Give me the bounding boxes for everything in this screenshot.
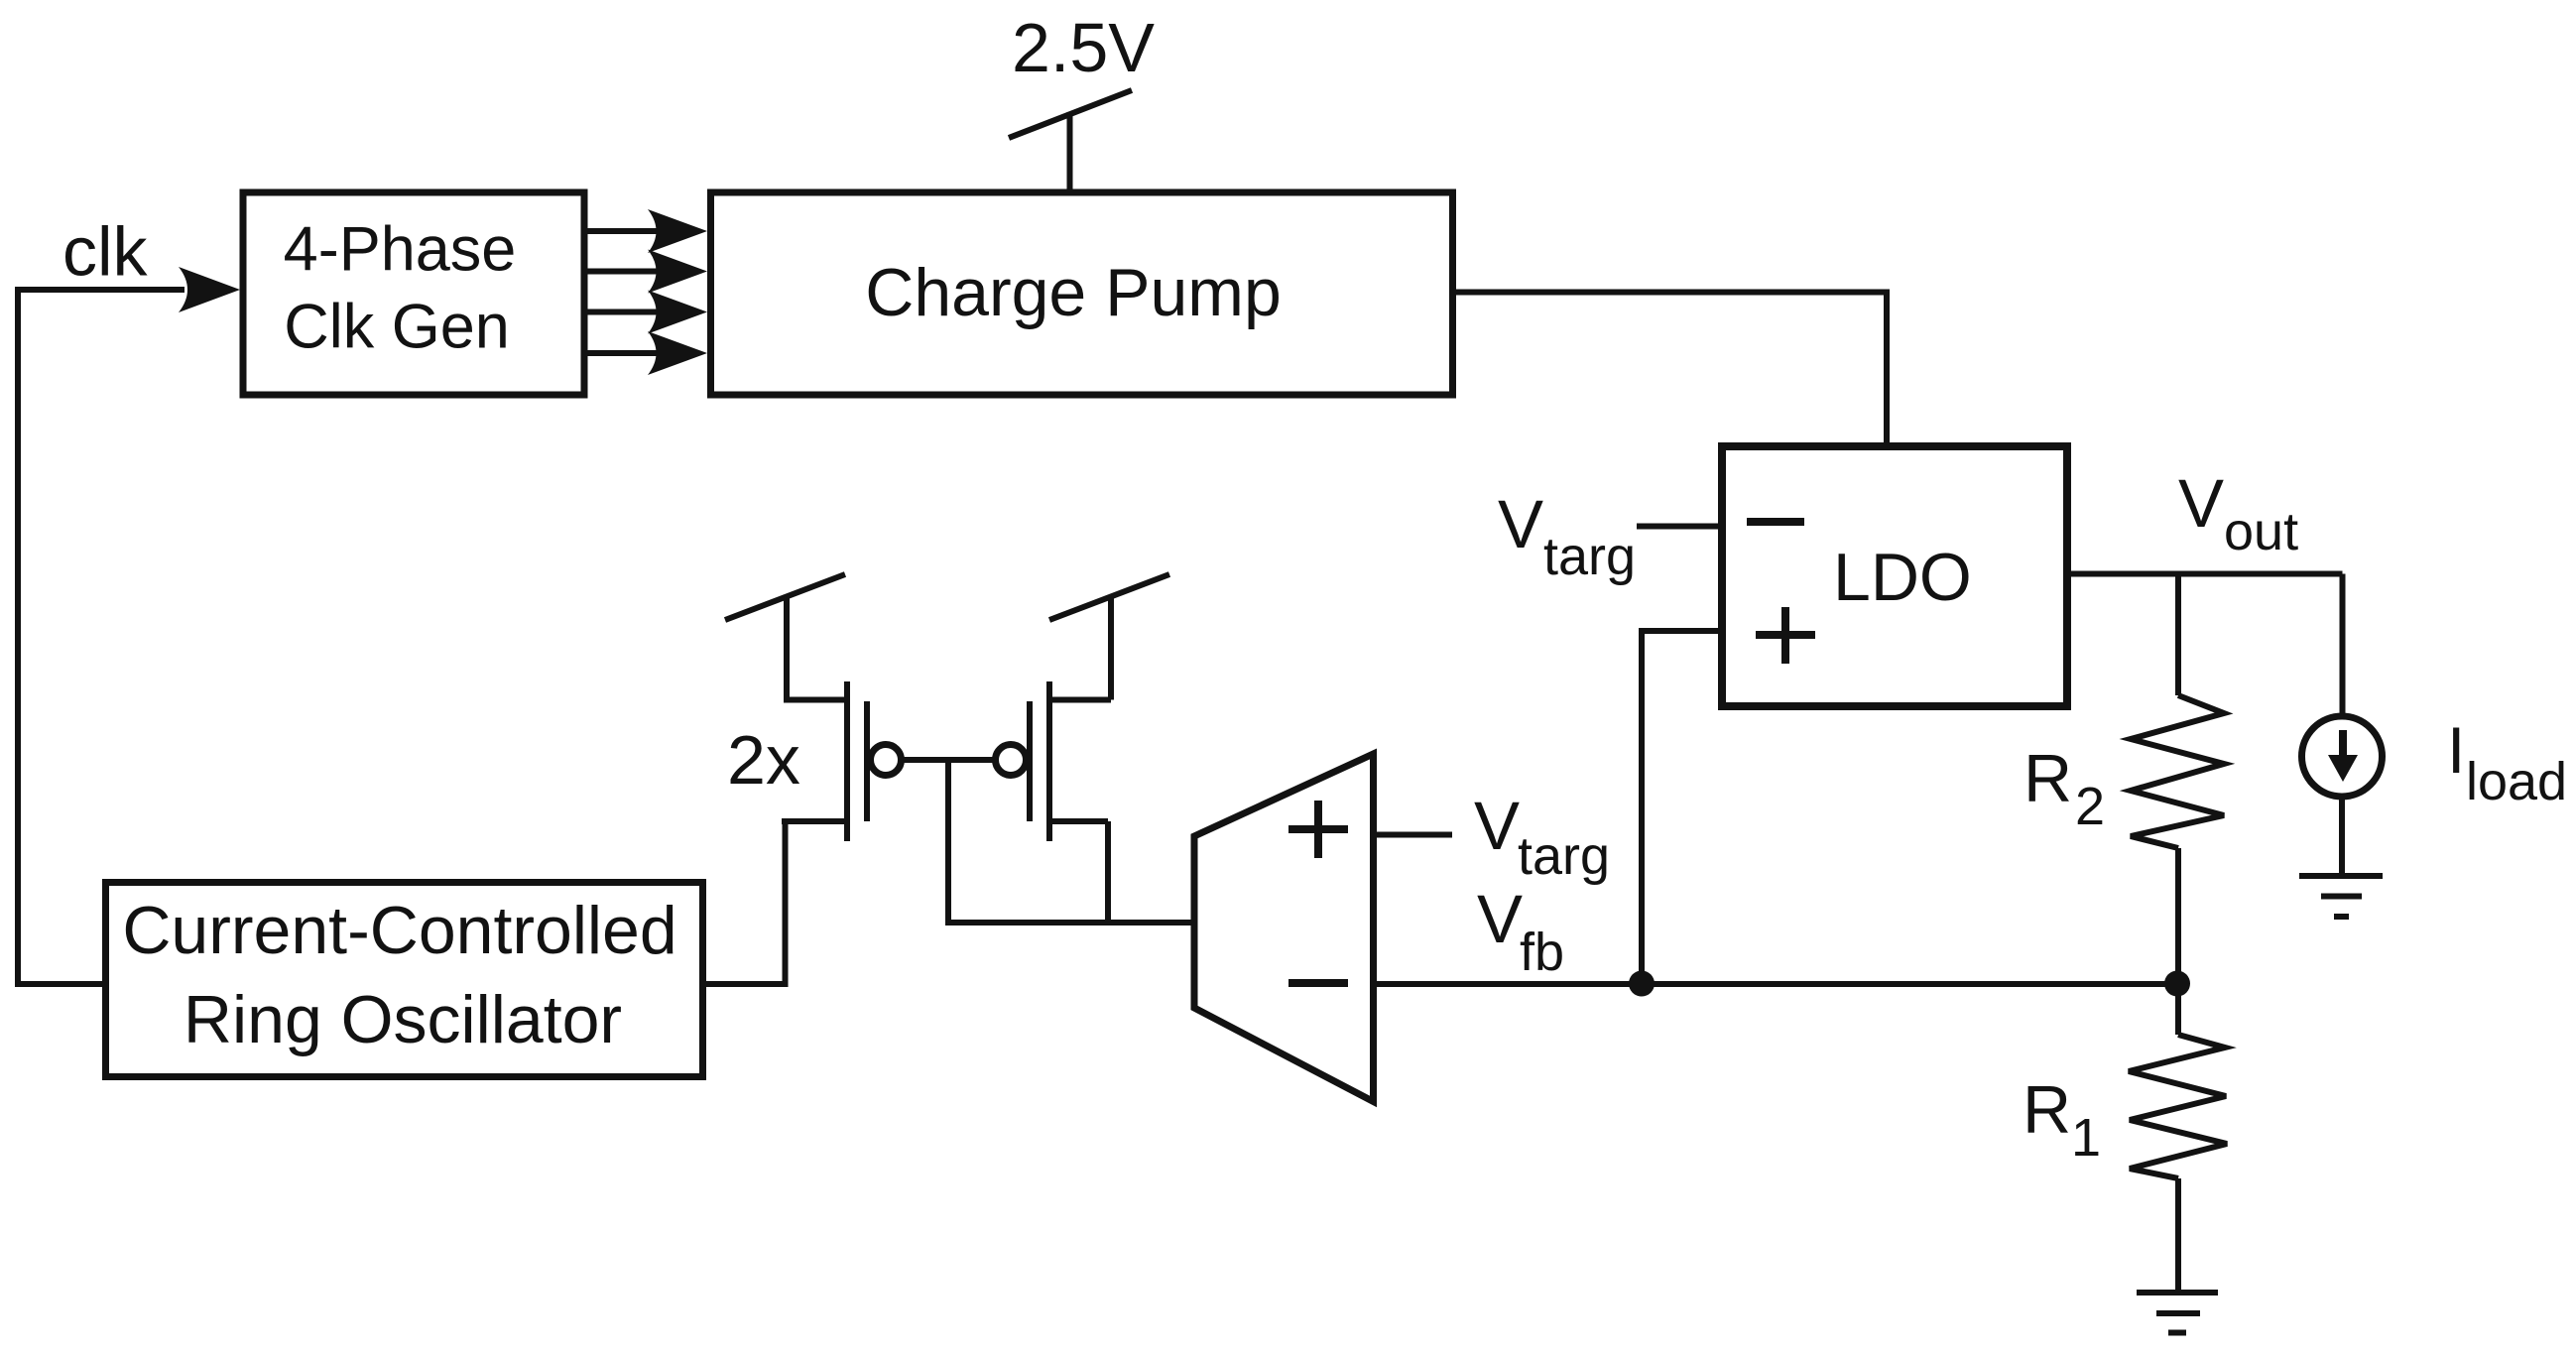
svg-text:Clk Gen: Clk Gen <box>284 293 510 362</box>
svg-text:LDO: LDO <box>1833 540 1972 615</box>
svg-text:Ring Oscillator: Ring Oscillator <box>184 982 622 1057</box>
svg-text:Current-Controlled: Current-Controlled <box>122 893 676 968</box>
svg-text:R: R <box>2023 1072 2071 1148</box>
svg-text:Charge Pump: Charge Pump <box>865 255 1282 330</box>
svg-text:fb: fb <box>1520 923 1564 982</box>
svg-text:targ: targ <box>1543 527 1636 586</box>
svg-text:V: V <box>1498 486 1543 562</box>
svg-text:out: out <box>2224 502 2298 561</box>
svg-text:I: I <box>2447 713 2465 787</box>
svg-text:2: 2 <box>2075 777 2105 836</box>
svg-text:clk: clk <box>62 213 149 291</box>
svg-text:1: 1 <box>2071 1108 2101 1168</box>
svg-text:2x: 2x <box>727 721 800 799</box>
svg-text:4-Phase: 4-Phase <box>284 215 517 285</box>
svg-text:R: R <box>2024 741 2072 816</box>
svg-text:V: V <box>1474 788 1520 864</box>
svg-text:targ: targ <box>1518 826 1610 886</box>
svg-text:2.5V: 2.5V <box>1012 9 1155 86</box>
svg-text:load: load <box>2466 752 2567 811</box>
svg-text:V: V <box>2178 465 2224 542</box>
svg-text:V: V <box>1477 881 1523 957</box>
